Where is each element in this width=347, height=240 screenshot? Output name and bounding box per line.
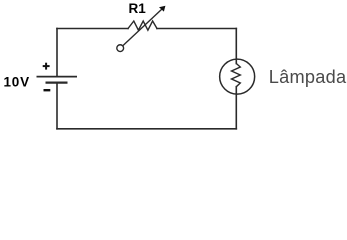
wire: left side, bottom corner up to battery negative plate	[56, 83, 58, 129]
svg-text:Lâmpada: Lâmpada	[269, 67, 347, 87]
battery − polarity mark	[44, 89, 51, 91]
wire: top side, resistor to top-right corner	[157, 28, 236, 30]
battery + polarity mark	[43, 63, 50, 70]
battery V1 positive plate (long)	[37, 76, 78, 78]
rheostat wiper terminal circle	[117, 45, 124, 52]
lamp LP1 bulb circle	[220, 59, 255, 94]
wire: left side, battery positive plate up to top-left corner	[56, 29, 58, 77]
rheostat wiper arrowhead	[159, 6, 165, 12]
wire: right side, top corner down to lamp	[235, 29, 237, 64]
battery V1 negative plate (short)	[46, 81, 68, 83]
wire: top side, left corner to resistor R1	[57, 28, 128, 30]
resistor R1 (rheostat zigzag)	[128, 21, 157, 30]
svg-text:10V: 10V	[4, 75, 30, 90]
svg-text:R1: R1	[129, 1, 147, 16]
wire: bottom side	[57, 128, 236, 130]
wire: right side, lamp bottom to bottom-right corner	[235, 87, 237, 129]
rheostat wiper arrow line	[123, 8, 163, 45]
lamp filament zigzag	[232, 64, 241, 87]
